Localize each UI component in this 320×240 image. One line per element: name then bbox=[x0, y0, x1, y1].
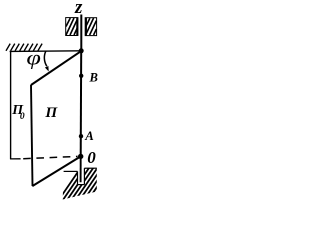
svg-text:A: A bbox=[84, 129, 94, 143]
left edge of fixed plane P0 bbox=[10, 51, 12, 159]
svg-text:0: 0 bbox=[20, 112, 25, 122]
bottom bearing slot bottom bbox=[78, 184, 85, 186]
rotated plane P: left edge bbox=[31, 85, 33, 186]
bottom bearing slot right wall bbox=[83, 168, 85, 184]
point O dot bbox=[78, 154, 83, 159]
svg-text:φ: φ bbox=[26, 47, 41, 70]
angle phi label bbox=[26, 47, 41, 70]
svg-text:П: П bbox=[44, 104, 58, 121]
top edge of fixed plane P0 bbox=[10, 50, 82, 53]
bottom bearing right block top edge bbox=[84, 167, 96, 169]
wall hatching above plane P0 top edge bbox=[6, 44, 42, 51]
top bearing right block bbox=[85, 18, 96, 36]
axis z line from top joint through B, A to O bbox=[80, 51, 83, 157]
bottom bearing slot left wall bbox=[77, 171, 79, 184]
axis shaft from O down into step bearing bbox=[80, 157, 82, 183]
point A dot bbox=[79, 134, 83, 138]
bottom edge of plane P0: solid corner piece bbox=[10, 158, 21, 160]
angle phi arc with arrowhead bbox=[44, 51, 46, 66]
svg-text:B: B bbox=[89, 71, 98, 85]
rotated plane P: bottom edge to point O bbox=[32, 156, 80, 186]
point B dot bbox=[79, 74, 83, 78]
rotated plane P: top edge bbox=[31, 51, 81, 85]
joint dot at top of axis bbox=[79, 48, 84, 53]
bottom edge of plane P0: dashed part to point O bbox=[23, 156, 77, 158]
bottom bearing outline: left block top edge bbox=[64, 170, 78, 172]
svg-text:0: 0 bbox=[87, 148, 96, 167]
top bearing left block bbox=[66, 18, 78, 36]
shaft of axis z above top bearing bbox=[80, 15, 82, 51]
